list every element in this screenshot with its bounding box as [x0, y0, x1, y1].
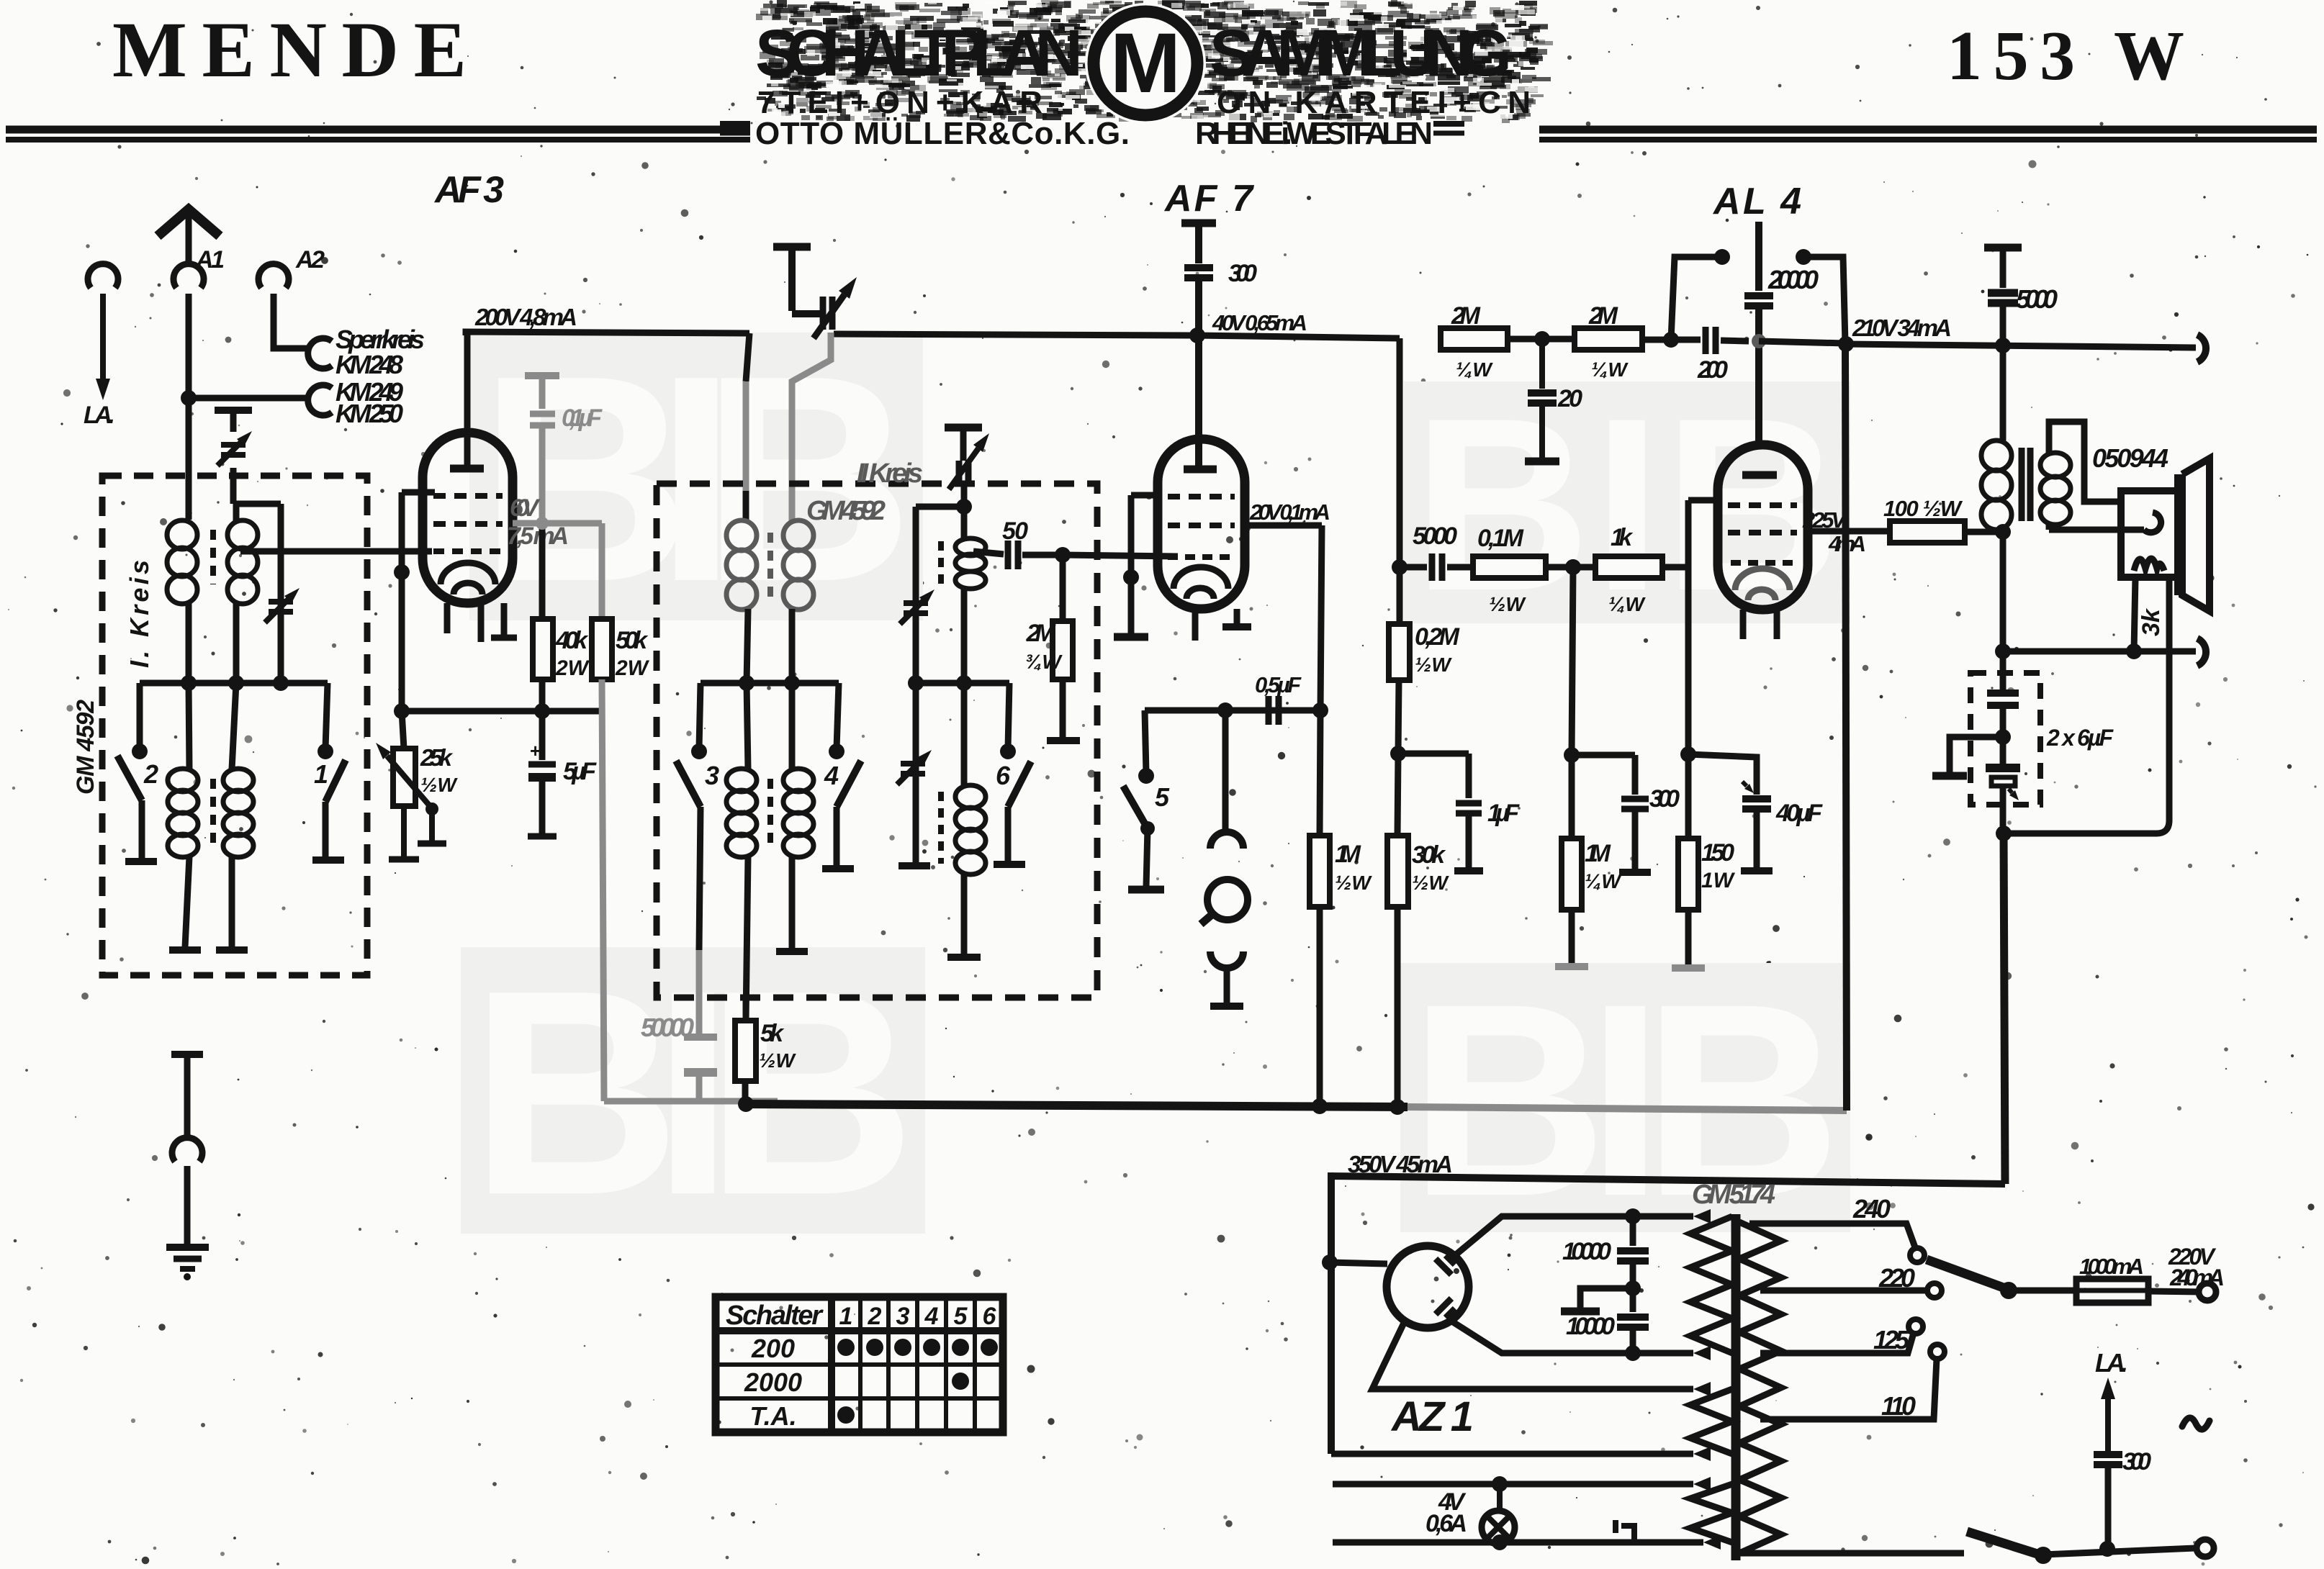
capacitor 6uF upper	[1987, 651, 2019, 745]
svg-text:2M: 2M	[1588, 302, 1618, 330]
svg-text:RHEINE i.WESTFALEN: RHEINE i.WESTFALEN	[1195, 116, 1433, 151]
pickup socket Y	[1210, 951, 1243, 1006]
node AZ1 anode feed	[1322, 1254, 1387, 1270]
svg-text:300: 300	[1649, 785, 1680, 813]
wire to switch1	[325, 683, 328, 749]
screen jumper right	[1796, 249, 1845, 343]
label 20V 0,1mA	[1249, 499, 1330, 525]
heater line upper	[1333, 1476, 1711, 1492]
svg-text:5µF: 5µF	[563, 758, 597, 785]
capacitor 300 (cathode)	[1572, 755, 1651, 872]
svg-text:1M: 1M	[1585, 840, 1611, 867]
svg-text:20V 0,1mA: 20V 0,1mA	[1249, 499, 1330, 525]
svg-text:1M: 1M	[1335, 841, 1361, 868]
wire field coil down	[2126, 577, 2142, 659]
rectifier AZ1 circle	[1387, 1246, 1469, 1328]
svg-text:¼W: ¼W	[1456, 358, 1493, 381]
label GM 5174	[1692, 1180, 1775, 1210]
node A1-junction	[181, 390, 197, 406]
table row label 2000	[744, 1367, 802, 1397]
table row label 200	[751, 1334, 795, 1363]
dashed box II.Kreis	[657, 484, 1097, 998]
svg-text:210V 34mA: 210V 34mA	[1852, 315, 1952, 341]
wire A1 down	[186, 294, 192, 398]
capacitor 10000 upper	[1617, 1216, 1649, 1296]
label 2M 3/4W	[1025, 620, 1063, 673]
switch 1	[312, 743, 346, 860]
trimmer II lower	[897, 683, 932, 866]
wire fuse to mains socket	[2148, 1291, 2199, 1292]
wire to KM249 socket	[189, 395, 311, 402]
wire AZ1 anode top	[1454, 1208, 1711, 1256]
logo text SAMMLUNG	[1210, 17, 1512, 90]
tube label AF 3	[433, 169, 504, 211]
svg-text:½W: ½W	[420, 774, 458, 796]
watermark BIB bottom-left	[461, 929, 925, 1255]
capacitor 0,5uF	[1269, 696, 1279, 725]
label LA. bottom	[2095, 1348, 2128, 1378]
label 050944	[2092, 443, 2168, 473]
svg-text:6: 6	[996, 761, 1011, 790]
svg-text:40µF: 40µF	[1775, 800, 1823, 827]
coil L3 lower primary	[168, 683, 201, 950]
label 0,5uF	[1255, 672, 1302, 697]
label KM 248	[335, 350, 403, 379]
capacitor 5000	[1400, 553, 1473, 581]
publisher line OTTO MÜLLER	[755, 116, 1433, 151]
svg-text:LA.: LA.	[2095, 1348, 2128, 1378]
speaker cone	[2179, 458, 2210, 611]
label 5	[1155, 782, 1170, 812]
label 1000mA	[2079, 1254, 2144, 1279]
switch 2	[117, 743, 157, 862]
svg-text:KM 248: KM 248	[335, 350, 403, 379]
mains socket	[2199, 1283, 2216, 1301]
resistor 2M b	[1575, 328, 1642, 350]
label 4	[824, 761, 839, 790]
svg-text:6: 6	[983, 1303, 997, 1330]
svg-text:GM 4592: GM 4592	[72, 700, 99, 795]
capacitor 300 (LA)	[2094, 1455, 2122, 1549]
PSU rail 350V	[1331, 1176, 2005, 1454]
wire switch to LA node	[2043, 1541, 2196, 1557]
capacitor 0,1uF	[525, 376, 559, 523]
label 1M 1/2W	[1335, 841, 1372, 894]
label KM 249	[335, 377, 403, 407]
wire speaker return	[2156, 577, 2169, 833]
svg-text:200V 4,8mA: 200V 4,8mA	[474, 304, 577, 330]
label GM 4592 (rotated, left)	[72, 700, 99, 795]
AL4 cathode arcs	[1735, 569, 1790, 600]
primary bottom line	[1739, 1550, 1964, 1557]
AF3 grid g2 dashes	[433, 493, 503, 499]
svg-text:1000mA: 1000mA	[2079, 1254, 2144, 1279]
svg-text:3k: 3k	[2138, 607, 2165, 636]
label 5uF	[563, 758, 597, 785]
header double rule right	[1539, 130, 2317, 140]
capacitor 1uF	[1398, 754, 1483, 871]
mains primary winding	[1739, 1222, 1781, 1553]
svg-text:5000: 5000	[1413, 523, 1457, 550]
socket speaker line	[2197, 638, 2206, 666]
wire rail mid1	[1508, 331, 1575, 347]
socket LA	[88, 264, 118, 288]
AL4 anode plate	[1742, 471, 1777, 479]
core dashes L7	[767, 779, 773, 849]
svg-text:40V 0,65mA: 40V 0,65mA	[1212, 310, 1307, 335]
label 3k (rotated)	[2138, 607, 2165, 636]
wire 200V rail corner	[466, 332, 749, 335]
svg-text:½W: ½W	[1489, 593, 1526, 615]
svg-text:½W: ½W	[1335, 872, 1372, 894]
label 225V 4mA	[1802, 507, 1866, 556]
label II Kreis	[857, 458, 923, 489]
wire 60V screen line	[513, 523, 602, 619]
capacitor 200 coupling	[1706, 327, 1749, 354]
svg-text:½W: ½W	[1412, 872, 1449, 894]
svg-text:T.A.: T.A.	[749, 1401, 796, 1431]
svg-text:10000: 10000	[1566, 1313, 1615, 1340]
resistor 2M 3/4W	[1047, 555, 1080, 741]
wire AL4 anode 225V	[1808, 528, 1890, 535]
socket A2	[258, 264, 289, 288]
tube AF7 envelope	[1158, 439, 1245, 609]
AF7 anode plate	[1184, 466, 1217, 474]
svg-text:2W: 2W	[615, 656, 650, 680]
svg-text:½W: ½W	[759, 1049, 796, 1072]
sheet number 153 W	[1947, 17, 2184, 95]
HT winding	[1690, 1216, 1732, 1353]
svg-text:M: M	[1110, 16, 1181, 111]
wire to switch4	[837, 683, 839, 749]
label 50000	[641, 1013, 694, 1042]
wire 50 to AF7 grid	[1063, 555, 1178, 556]
switch 6	[994, 743, 1031, 864]
svg-text:7TEI+ON+KAR: 7TEI+ON+KAR	[757, 85, 1045, 120]
tube label AL 4	[1712, 181, 1801, 222]
voltage selector lever	[1927, 1260, 2017, 1299]
label LA.	[84, 402, 115, 429]
svg-text:1µF: 1µF	[1487, 800, 1520, 827]
logo subtitle KARTEI row	[757, 85, 1533, 120]
wire selector to fuse	[2009, 1288, 2076, 1294]
svg-text:2: 2	[143, 759, 158, 789]
svg-text:ON-KARTEI+CN: ON-KARTEI+CN	[1217, 85, 1533, 120]
wire AZ1 anode bottom	[1449, 1319, 1711, 1361]
tap 240	[1749, 1224, 1924, 1262]
label 0,1M 1/2W	[1477, 525, 1526, 615]
coil L4 lower secondary	[216, 683, 253, 950]
label KM 250	[335, 399, 403, 428]
svg-text:½W: ½W	[1415, 654, 1452, 676]
svg-text:BIB: BIB	[1410, 946, 1842, 1253]
wire 50k down AVC	[602, 679, 604, 1101]
node line AF3 cathode bus	[394, 703, 604, 719]
AF7 heater pin	[1192, 609, 1199, 641]
table header Schalter	[726, 1301, 824, 1331]
svg-text:¼W: ¼W	[1591, 358, 1629, 381]
watermark BIB top-right	[1404, 367, 1850, 642]
resistor 1M 1/2W	[1310, 836, 1330, 1106]
svg-text:5: 5	[954, 1303, 968, 1330]
svg-text:A1: A1	[195, 246, 225, 273]
wire down to PSU rail	[2004, 833, 2005, 1184]
svg-text:225V: 225V	[1802, 507, 1847, 533]
svg-text:1: 1	[314, 759, 328, 789]
wire rail mid2	[1642, 332, 1701, 348]
tube AF3 envelope	[423, 433, 513, 603]
svg-text:100 ½W: 100 ½W	[1883, 496, 1963, 521]
wire rail to II.Kreis coil	[746, 333, 749, 521]
switch table frame	[716, 1297, 1003, 1432]
wire LA down-arrow	[96, 294, 110, 400]
AF7 cathode pin bar	[1222, 609, 1251, 627]
svg-text:4: 4	[924, 1303, 939, 1330]
svg-text:0,1M: 0,1M	[1477, 525, 1524, 552]
dashed box 2x6uF	[1971, 673, 2040, 805]
capacitor 6uF lower	[1986, 737, 2020, 833]
AF7 shield box	[1114, 495, 1161, 637]
svg-text:50000: 50000	[641, 1013, 694, 1042]
screen jumper left	[1671, 249, 1730, 340]
watermark BIB top-left	[469, 315, 923, 643]
AL4 grid dashes 1	[1728, 502, 1797, 508]
output transformer secondary	[2040, 453, 2071, 525]
table row label T.A.	[749, 1401, 796, 1431]
AF7 grid dashes 1	[1168, 494, 1235, 499]
wire to switch5	[1145, 710, 1146, 773]
label 0,2M 1/2W	[1415, 623, 1460, 676]
heater winding 4V	[1690, 1484, 1732, 1542]
label 7,5mA	[507, 523, 569, 550]
label 220V 240mA	[2168, 1244, 2225, 1290]
capacitor 5uF	[528, 711, 557, 836]
wire 0,5uF line	[1145, 702, 1328, 718]
socket A1	[174, 264, 204, 288]
pickup socket circle	[1201, 880, 1248, 924]
junction line II.Kreis left	[701, 675, 839, 691]
wire 1k to AL4 grid	[1662, 564, 1688, 571]
potentiometer 25k	[376, 711, 446, 859]
label GM 4592 (II.Kreis)	[806, 496, 886, 526]
wire HT centre tap ground	[1561, 1288, 1633, 1311]
wire secondary-top to trimmer	[236, 501, 281, 507]
label 2x6uF	[2046, 725, 2114, 751]
wire AL4 bias node	[1688, 754, 1757, 795]
header double rule left	[6, 130, 750, 140]
resistor 150 1W	[1672, 754, 1705, 968]
switch 4	[822, 743, 861, 869]
AZ1 diode plates	[1436, 1255, 1455, 1318]
wire rail AF7 to corner	[1195, 335, 1400, 338]
wire OT primary bottom node	[1995, 530, 2011, 659]
svg-text:10000: 10000	[1562, 1238, 1611, 1265]
label 210V 34mA	[1852, 315, 1952, 341]
capacitor 20000	[1744, 296, 1773, 445]
label 300 (LA)	[2122, 1448, 2151, 1475]
svg-text:¾W: ¾W	[1025, 651, 1063, 673]
rule stub marks	[720, 124, 1464, 133]
wire top link II	[916, 499, 972, 515]
label 1	[314, 759, 328, 789]
coil L10	[947, 683, 986, 957]
AF7 cathode arcs	[1174, 567, 1228, 599]
coil L9	[955, 507, 986, 683]
svg-text:300: 300	[2122, 1448, 2151, 1475]
wire to switch3	[699, 683, 701, 749]
wire grid line II to AF7 rail	[834, 334, 1195, 335]
wire gang to coil gray	[792, 333, 831, 521]
svg-text:110: 110	[1881, 1391, 1916, 1421]
resistor 40k 2W	[533, 619, 553, 679]
dashed box I.Kreis	[102, 476, 367, 975]
svg-text:2M: 2M	[1026, 620, 1056, 647]
table dot row TA col1	[837, 1406, 855, 1424]
svg-text:240mA: 240mA	[2169, 1265, 2225, 1290]
table dot row 2000 col5	[952, 1373, 969, 1390]
svg-text:Schalter: Schalter	[726, 1301, 824, 1331]
resistor 5k 1/2W	[735, 998, 756, 1105]
svg-text:3: 3	[896, 1303, 910, 1330]
AF3 heater pin	[444, 603, 451, 633]
wire B+ vertical right	[1838, 336, 1854, 1111]
svg-text:0,1µF: 0,1µF	[562, 404, 603, 432]
capacitor 5000 rail	[1984, 248, 2022, 344]
label 300 (AF7)	[1228, 260, 1257, 287]
resistor 0,1M 1/2W	[1473, 556, 1546, 578]
svg-text:25k: 25k	[420, 744, 454, 771]
wire coupling node down	[1564, 559, 1581, 763]
logo emblem circle M	[1085, 3, 1206, 124]
svg-text:+: +	[530, 740, 541, 761]
earth stub bar	[171, 1051, 203, 1058]
junction line I.Kreis	[140, 675, 328, 691]
wire 2x6uF mid ground	[1932, 737, 2003, 776]
svg-text:50: 50	[1002, 517, 1028, 545]
label 10000 upper	[1562, 1238, 1611, 1265]
AZ1 filament winding	[1690, 1389, 1732, 1454]
resistor 30k 1/2W	[1387, 754, 1408, 1107]
brand title MENDE	[112, 6, 467, 94]
svg-text:5: 5	[1155, 782, 1170, 812]
capacitor 50000	[684, 950, 717, 1103]
tap 220	[1760, 1283, 1942, 1298]
wire anode feed AF3	[464, 332, 471, 466]
svg-text:BIB: BIB	[470, 929, 916, 1255]
capacitor 50	[973, 541, 1071, 569]
svg-text:125: 125	[1873, 1325, 1910, 1355]
svg-text:2 x 6µF: 2 x 6µF	[2046, 725, 2114, 751]
tube label AF 7	[1163, 178, 1254, 220]
wire AZ1 filament b	[1331, 1447, 1711, 1461]
AF7 grid dashes 2	[1168, 523, 1235, 528]
AL4 grid dashes 3	[1731, 560, 1793, 566]
label 40uF	[1775, 800, 1823, 827]
core dashes L10	[938, 792, 944, 864]
svg-text:¼W: ¼W	[1608, 593, 1646, 615]
wire to switch2	[137, 683, 143, 749]
logo text SCHALTPLAN	[755, 17, 1083, 90]
heater chassis stub	[1616, 1520, 1634, 1542]
core dashes L5	[767, 533, 773, 597]
AF3 shield to node	[399, 572, 405, 711]
wire rail right	[1759, 338, 2196, 353]
tuning capacitor C2 gang	[773, 247, 857, 338]
label 2M a	[1451, 302, 1493, 381]
capacitor 10000 lower	[1617, 1288, 1649, 1353]
fuse 1000mA	[2076, 1279, 2148, 1303]
svg-text:60V: 60V	[510, 494, 541, 522]
svg-text:300: 300	[1228, 260, 1257, 287]
svg-text:5000: 5000	[2016, 284, 2058, 314]
earth stub wire lower	[184, 1166, 191, 1245]
node AF7 rail crossing	[1189, 327, 1205, 343]
mains switch	[1967, 1532, 2052, 1564]
coil L2 secondary	[228, 504, 258, 683]
svg-text:0,5µF: 0,5µF	[1255, 672, 1302, 697]
tap 110	[1760, 1344, 1945, 1419]
socket Sperrkreis KM248	[308, 338, 332, 368]
AF3 grid g1 dashes	[433, 521, 503, 527]
label I. Kreis (rotated)	[125, 560, 154, 668]
label 0,1uF	[562, 404, 603, 432]
table dots row 200	[837, 1339, 998, 1356]
socket rail right	[2197, 335, 2206, 362]
wire rail to OT primary	[2000, 345, 2007, 440]
resistor 50k 2W	[592, 619, 612, 679]
svg-text:5k: 5k	[760, 1020, 785, 1047]
label 110	[1881, 1391, 1916, 1421]
capacitor 40uF	[1741, 782, 1773, 871]
svg-text:50k: 50k	[616, 627, 649, 654]
svg-text:SAMMLUNG: SAMMLUNG	[1210, 17, 1512, 90]
AL4 grid dashes 2	[1728, 530, 1797, 535]
capacitor 300 (AF7 grid)	[1184, 268, 1213, 466]
wire 0,1uF to 40k	[536, 517, 549, 619]
svg-text:LA.: LA.	[84, 402, 115, 429]
switch 5	[1123, 768, 1164, 890]
core dashes L1	[210, 530, 216, 584]
svg-text:GM 4592: GM 4592	[806, 496, 886, 526]
svg-text:AF 3: AF 3	[433, 169, 504, 211]
svg-text:200: 200	[751, 1334, 795, 1363]
coil L1 primary	[167, 520, 197, 683]
wire AF7 anode to 1M	[1320, 710, 1320, 836]
label 200	[1697, 356, 1728, 384]
core dashes L3	[210, 779, 216, 849]
svg-text:150: 150	[1701, 839, 1734, 867]
capacitor 20 decoupling	[1525, 339, 1559, 461]
phone jack hook	[1210, 710, 1243, 849]
transformer GM5174 core	[1731, 1214, 1741, 1560]
wire 40k to node	[539, 679, 546, 711]
svg-text:40k: 40k	[555, 627, 589, 654]
wire 0,1M to 1k	[1546, 559, 1595, 575]
junction line II right	[908, 675, 1009, 691]
label 2M b	[1588, 302, 1629, 381]
coil L6	[783, 520, 814, 683]
wire speaker line	[1996, 651, 2196, 841]
resistor 1k 1/4W	[1595, 556, 1662, 578]
label 50	[1002, 517, 1028, 545]
AF3 control grid dashes	[433, 548, 503, 554]
label AZ 1	[1390, 1393, 1474, 1440]
wire voice coil	[2049, 512, 2161, 533]
AL4 grid box	[1680, 500, 1721, 762]
svg-text:KM 250: KM 250	[335, 399, 403, 428]
wire rail corner down	[1392, 338, 1408, 575]
label 5k 1/2W	[759, 1020, 796, 1072]
